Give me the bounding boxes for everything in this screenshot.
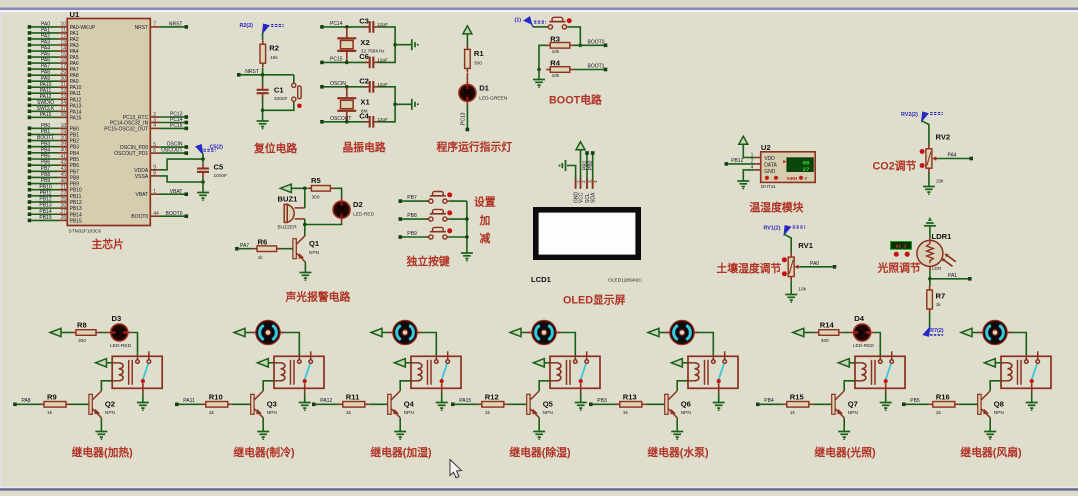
terminal PA11 [175, 403, 179, 407]
svg-text:R7(2): R7(2) [930, 328, 944, 334]
wire R7 down [929, 313, 931, 328]
motor (继电器(风扇)) [979, 332, 984, 334]
MCU U1 body [67, 19, 150, 226]
wire emitter to ground [676, 418, 678, 432]
LED D1 LED-GREEN [466, 80, 468, 85]
resistor R11 [339, 403, 343, 405]
OLED SDA wire [592, 155, 594, 179]
svg-text:9: 9 [153, 165, 156, 171]
svg-text:晶振电路: 晶振电路 [343, 140, 386, 154]
svg-text:100nF: 100nF [274, 96, 288, 102]
motor (继电器(加湿)) [389, 332, 394, 334]
svg-text:1k: 1k [258, 255, 264, 261]
svg-text:OSCOUT: OSCOUT [161, 148, 182, 154]
motor (继电器(水泵)) [666, 332, 671, 334]
svg-text:PA8: PA8 [22, 398, 31, 404]
svg-text:OSCIN: OSCIN [167, 142, 183, 148]
svg-text:OLED显示屏: OLED显示屏 [563, 294, 626, 307]
wire relay common to ground [304, 394, 306, 403]
svg-text:40: 40 [60, 148, 66, 154]
svg-text:R10: R10 [209, 392, 223, 401]
wire R10 to base [232, 403, 251, 405]
svg-text:PA15: PA15 [70, 115, 82, 121]
wire C3 right [379, 27, 396, 45]
terminal OSCIN [320, 85, 324, 89]
power terminal (indicator) [463, 26, 472, 34]
wire PA11 to R10 [179, 403, 202, 405]
wire relay common to ground [441, 394, 443, 403]
svg-text:D4: D4 [854, 314, 864, 323]
wire relay common to ground [885, 394, 887, 403]
svg-text:PB7: PB7 [41, 166, 51, 172]
wire D4 to relay contact [875, 333, 881, 357]
svg-text:U2: U2 [761, 143, 771, 152]
svg-text:C1: C1 [274, 86, 284, 95]
svg-text:OSCIN: OSCIN [330, 81, 346, 87]
svg-text:PC13: PC13 [461, 112, 467, 125]
wire collector to coil [539, 381, 550, 391]
wire bottom to button [263, 101, 294, 110]
wire PC14 [324, 26, 367, 28]
power terminal (继电器(水泵)) [648, 328, 659, 336]
svg-text:PA4: PA4 [948, 153, 957, 159]
wire coil arrow [107, 362, 113, 364]
svg-text:8: 8 [153, 171, 156, 177]
svg-text:PA15: PA15 [459, 398, 471, 404]
terminal BOOT0 [604, 44, 608, 48]
svg-text:PB15: PB15 [70, 218, 82, 224]
svg-text:PA11: PA11 [183, 398, 195, 404]
ground (relay Q2) [137, 403, 149, 409]
wire PA7 to R6 [239, 248, 253, 250]
svg-text:PB6: PB6 [70, 163, 80, 169]
ground (emitter Q8) [984, 432, 996, 438]
svg-text:LDR1: LDR1 [932, 232, 953, 241]
svg-text:PA1: PA1 [948, 273, 957, 279]
transistor Q5 NPN [527, 394, 530, 414]
wire power to R14 [804, 332, 815, 334]
svg-text:44: 44 [153, 211, 159, 217]
svg-text:e: e [805, 177, 808, 182]
U1 pin PA4 / net PA4 [28, 49, 32, 53]
svg-text:PC15-OSC32_OUT: PC15-OSC32_OUT [104, 126, 148, 132]
wire R15 to base [813, 403, 832, 405]
wire D2 to collector node [305, 222, 342, 224]
relay coil+contact (继电器(加热)) [112, 351, 162, 393]
svg-text:PB9: PB9 [41, 178, 51, 184]
terminal BOOT1 [604, 68, 608, 72]
terminal PC15 [320, 61, 324, 65]
push button (reset) [292, 83, 296, 87]
svg-text:7: 7 [153, 22, 156, 28]
power terminal (relay coil Q8) [984, 359, 995, 367]
node NRST/C1 [261, 73, 265, 77]
motor (继电器(除湿)) [528, 332, 533, 334]
wire R12 to base [508, 403, 527, 405]
LED D4 LED-RED [850, 332, 855, 334]
svg-text:PB4: PB4 [41, 147, 51, 153]
transistor Q7 NPN [832, 394, 835, 414]
resistor R5 [307, 187, 311, 189]
resistor R10 [202, 403, 206, 405]
wire R3 left to R4 left [539, 45, 547, 69]
terminal PA0 [833, 265, 837, 269]
wire OSCOUT [324, 121, 367, 123]
transistor Q3 NPN [251, 394, 254, 414]
svg-text:R13: R13 [623, 392, 637, 401]
svg-text:10k: 10k [270, 55, 278, 61]
svg-text:LED-RED: LED-RED [353, 211, 375, 217]
svg-text:R6: R6 [258, 237, 268, 246]
svg-text:PB5: PB5 [70, 157, 80, 163]
svg-text:继电器(加湿): 继电器(加湿) [370, 445, 432, 459]
capacitor C5 [197, 163, 209, 177]
svg-text:5: 5 [153, 142, 156, 148]
node X2 top [345, 25, 349, 29]
svg-text:R2(2): R2(2) [240, 23, 254, 29]
potentiometer RV2 [928, 145, 930, 149]
resistor R6 [253, 248, 257, 250]
svg-text:D3: D3 [112, 314, 122, 323]
svg-text:26: 26 [60, 203, 66, 209]
svg-text:1: 1 [751, 152, 754, 158]
wire relay common to ground [718, 394, 720, 403]
U1 pin PB4 / net PB4 [28, 151, 32, 155]
svg-text:PB0: PB0 [41, 123, 51, 129]
svg-text:C4: C4 [359, 112, 369, 121]
node C5 top [201, 157, 205, 161]
svg-text:PA15: PA15 [40, 112, 52, 118]
transistor Q2 NPN [89, 394, 92, 414]
power terminal (buzzer) [280, 184, 291, 192]
svg-text:R8: R8 [77, 321, 87, 330]
svg-text:LCD1: LCD1 [531, 275, 552, 284]
svg-text:PB9: PB9 [407, 231, 417, 237]
resistor R2 [262, 40, 264, 44]
ground (emitter Q2) [95, 432, 107, 438]
LDR value display [891, 242, 912, 250]
svg-text:RV2: RV2 [936, 133, 951, 142]
svg-text:PB1: PB1 [41, 129, 51, 135]
svg-text:PB12: PB12 [39, 197, 51, 203]
svg-text:Q3: Q3 [267, 400, 277, 409]
capacitor C1 [257, 85, 269, 99]
node Q1 collector [303, 223, 307, 227]
terminal PB12 [725, 162, 729, 166]
ground (relay Q8) [1026, 403, 1038, 409]
svg-text:R7: R7 [936, 292, 946, 301]
terminal PA15 [451, 403, 455, 407]
svg-text:C6: C6 [359, 52, 369, 61]
node button common 2 [465, 235, 469, 239]
power terminal (继电器(加热)) [50, 328, 61, 336]
ground (C5) [197, 193, 209, 199]
svg-text:PB3: PB3 [597, 398, 607, 404]
push button (BOOT) [546, 17, 571, 29]
node PA1 [928, 277, 932, 281]
U1 pin PB8 / net PB8 [28, 176, 32, 180]
svg-text:28: 28 [60, 215, 66, 221]
svg-text:R3: R3 [550, 34, 560, 43]
svg-text:22: 22 [60, 191, 66, 197]
wire motor to relay contact [1012, 333, 1027, 357]
svg-text:LED-RED: LED-RED [853, 343, 875, 349]
wire RV2 wiper to PA4 [938, 158, 969, 160]
relay coil+contact (继电器(水泵)) [688, 351, 738, 393]
svg-text:OSCIN_PD0: OSCIN_PD0 [120, 145, 149, 151]
wire collector to coil [263, 381, 274, 391]
resistor R3 [546, 44, 550, 46]
terminal PA4 [969, 157, 973, 161]
resistor R1 [466, 45, 468, 49]
power terminal (relay coil Q3) [257, 359, 268, 367]
wire collector to coil [844, 381, 855, 391]
svg-text:PB10: PB10 [70, 188, 82, 194]
svg-text:RV2(2): RV2(2) [901, 112, 918, 118]
svg-text:DATA: DATA [764, 163, 777, 169]
power terminal (继电器(除湿)) [510, 328, 521, 336]
svg-text:D1: D1 [479, 84, 489, 93]
node X1 bottom [345, 120, 349, 124]
svg-text:BOOT0: BOOT0 [166, 211, 183, 217]
wire PB9 to button [402, 236, 429, 238]
resistor R7 [929, 286, 931, 290]
wire NRST node down to C1 [262, 75, 264, 85]
mouse cursor [450, 460, 462, 478]
svg-text:41: 41 [60, 154, 66, 160]
svg-text:LED-RED: LED-RED [110, 343, 132, 349]
node X2 caps common [393, 43, 397, 47]
U1 pin PA12 / net PA12 [28, 97, 32, 101]
node C5 bottom [201, 180, 205, 184]
svg-text:62.1: 62.1 [895, 244, 906, 250]
power terminal (继电器(制冷)) [234, 328, 245, 336]
svg-text:加: 加 [479, 213, 491, 227]
svg-text:10k: 10k [798, 287, 806, 293]
wire PB4 to R15 [760, 403, 783, 405]
svg-text:PB12: PB12 [70, 200, 82, 206]
wire GND pin to ground [743, 170, 754, 181]
wire R4 to BOOT1 terminal [574, 69, 604, 71]
svg-text:NPN: NPN [994, 410, 1005, 416]
window left edge line [0, 12, 2, 487]
svg-text:LED-GREEN: LED-GREEN [479, 96, 508, 102]
relay coil+contact (继电器(风扇)) [1001, 351, 1051, 393]
wire C1 node to ground [262, 110, 264, 121]
capacitor C3 [365, 21, 379, 33]
wire power to R8 [61, 332, 72, 334]
svg-text:18: 18 [60, 123, 66, 129]
ground (relay Q3) [299, 403, 311, 409]
transistor Q6 NPN [665, 394, 668, 414]
wire power to motor [521, 332, 528, 334]
window bottom border line [0, 487, 1078, 489]
wire top to button [293, 75, 295, 83]
svg-text:U1: U1 [70, 10, 80, 19]
svg-text:NPN: NPN [848, 410, 859, 416]
wire emitter to ground [100, 418, 102, 432]
wire PB7 to button [402, 200, 429, 202]
ground (emitter Q6) [671, 432, 683, 438]
wire button to BOOT0 node [568, 27, 580, 45]
svg-text:4: 4 [751, 165, 754, 171]
wire RV1 wiper to PA0 [800, 266, 832, 268]
svg-text:300: 300 [78, 338, 86, 344]
svg-text:1k: 1k [936, 302, 942, 308]
wire D1 to PC13 terminal [466, 105, 468, 128]
U1 pin PB5 / net PB5 [28, 157, 32, 161]
ground (emitter Q3) [257, 432, 269, 438]
node X1 caps common [393, 103, 397, 107]
wire emitter to ground [843, 418, 845, 432]
power terminal (OLED) [576, 142, 585, 150]
svg-text:R1: R1 [474, 49, 484, 58]
U1 pin PB10 / net PB10 [28, 188, 32, 192]
svg-text:10k: 10k [936, 178, 944, 184]
wire R1 to D1 [466, 73, 468, 81]
svg-text:NPN: NPN [309, 250, 320, 256]
svg-text:20: 20 [60, 135, 66, 141]
LDR control red dots [894, 252, 899, 257]
ground (RV2) [923, 187, 935, 193]
svg-text:21: 21 [60, 185, 66, 191]
U1 pin PA1 / net PA1 [28, 31, 32, 35]
U1 pin PB14 / net PB14 [28, 212, 32, 216]
wire RV2 to ground [928, 173, 930, 187]
svg-text:R16: R16 [936, 392, 950, 401]
svg-text:25: 25 [60, 197, 66, 203]
U1 pin PA7 / net PA7 [28, 67, 32, 71]
svg-text:2: 2 [581, 180, 587, 183]
svg-text:OLED12864I2C: OLED12864I2C [608, 278, 642, 284]
wire flag to RV2 [922, 121, 929, 145]
wire coil arrow [268, 362, 274, 364]
U1 pin PA15 / net PA15 [28, 116, 32, 120]
ground (DHT11) [737, 181, 749, 187]
capacitor C6 [365, 57, 379, 69]
svg-text:Q7: Q7 [848, 400, 858, 409]
wire PB8 to button [402, 218, 429, 220]
svg-text:BOOT电路: BOOT电路 [549, 93, 602, 107]
transistor Q8 NPN [978, 394, 981, 414]
svg-text:NPN: NPN [543, 410, 554, 416]
wire relay common to ground [1031, 394, 1033, 403]
relay coil+contact (继电器(加湿)) [411, 351, 461, 393]
wire flag to R2 [262, 33, 264, 40]
svg-text:X2: X2 [360, 38, 369, 47]
terminal PA7 [235, 247, 239, 251]
svg-text:R5: R5 [311, 176, 321, 185]
U1 pin OSCIN_PD0 / net OSCIN [150, 146, 159, 148]
wire power to node [291, 187, 307, 189]
svg-text:LDR: LDR [932, 266, 942, 272]
svg-text:继电器(光照): 继电器(光照) [814, 445, 876, 459]
wire R14 to D4 [843, 332, 850, 334]
ground (OLED, rotated left) [562, 160, 565, 171]
wire motor to relay contact [561, 333, 576, 357]
wire R13 to base [646, 403, 665, 405]
wire coil arrow [849, 362, 855, 364]
svg-text:27: 27 [60, 209, 66, 215]
svg-text:PB14: PB14 [39, 209, 51, 215]
svg-text:BUZZER: BUZZER [278, 224, 298, 230]
U1 pin PB15 / net PB15 [28, 219, 32, 223]
LED D3 LED-RED [107, 332, 112, 334]
svg-text:100nF: 100nF [214, 173, 228, 179]
svg-text:PB15: PB15 [39, 215, 51, 221]
ground (emitter Q4) [394, 432, 406, 438]
wire power to VDD [743, 144, 754, 157]
svg-text:PC15: PC15 [330, 56, 343, 62]
power terminal (继电器(风扇)) [961, 328, 972, 336]
svg-text:NPN: NPN [681, 410, 692, 416]
power terminal (relay coil Q7) [838, 359, 849, 367]
svg-text:PB0: PB0 [70, 126, 80, 132]
svg-text:PB0: PB0 [588, 160, 594, 170]
svg-text:DHT11: DHT11 [761, 184, 776, 190]
node R4 left [537, 68, 541, 72]
svg-text:Q5: Q5 [543, 400, 554, 409]
resistor R9 [40, 403, 44, 405]
wire collector to coil [677, 381, 688, 391]
svg-text:R9: R9 [47, 392, 57, 401]
wire power to motor [972, 332, 979, 334]
svg-text:1k: 1k [209, 410, 215, 416]
terminal PB7 [399, 199, 403, 203]
U1 pin PA8 / net PA8 [28, 73, 32, 77]
wire NRST horizontal [241, 74, 294, 76]
svg-text:SDA: SDA [591, 192, 597, 203]
svg-text:R4: R4 [550, 59, 560, 68]
terminal OSCOUT [320, 120, 324, 124]
svg-text:46: 46 [60, 178, 66, 184]
svg-text:10k: 10k [552, 73, 560, 79]
svg-text:4: 4 [153, 123, 156, 129]
wire ground to LDR [929, 226, 931, 238]
svg-text:土壤湿度调节: 土壤湿度调节 [717, 261, 782, 275]
svg-text:C5: C5 [214, 163, 224, 172]
svg-text:39: 39 [60, 142, 66, 148]
svg-text:X1: X1 [360, 98, 370, 107]
svg-text:PB2: PB2 [70, 139, 80, 145]
svg-text:主芯片: 主芯片 [92, 237, 124, 251]
wire R6 to Q1 base [281, 248, 293, 250]
svg-text:PB7: PB7 [407, 195, 417, 201]
U1 pin PC13_RTC / net PC13 [150, 116, 159, 118]
U1 pin PB2 / net BOOT1 [28, 139, 32, 143]
U1 pin PB1 / net PB1 [28, 133, 32, 137]
capacitor C4 [365, 116, 379, 128]
ground (reset) [257, 121, 269, 127]
window top strip [0, 0, 1078, 8]
node X1 top [345, 85, 349, 89]
wire button PB8 to common [449, 218, 467, 220]
terminal PB3 [589, 403, 593, 407]
wire buzzer top to R5 node [304, 188, 306, 208]
wire coil arrow [995, 362, 1001, 364]
wire R16 to base [959, 403, 978, 405]
U1 pin VBAT / net VBAT [150, 193, 159, 195]
svg-text:PA0: PA0 [810, 261, 819, 267]
power terminal (继电器(加湿)) [371, 328, 382, 336]
wire collector to coil [101, 381, 112, 391]
wire PA1 to terminal [930, 278, 968, 280]
node C1 bottom [261, 109, 265, 113]
U1 pin PB6 / net PB6 [28, 163, 32, 167]
svg-text:减: 减 [480, 231, 491, 245]
svg-text:复位电路: 复位电路 [253, 141, 297, 155]
U1 pin BOOT0 / net BOOT0 [150, 215, 159, 217]
